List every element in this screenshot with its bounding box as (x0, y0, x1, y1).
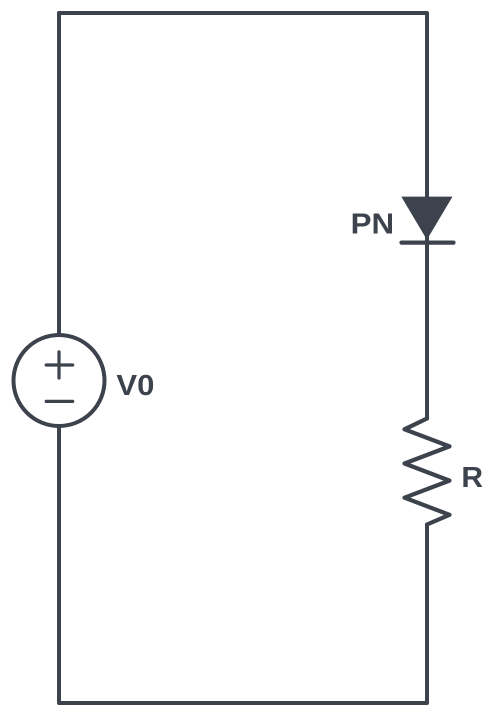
svg-text:PN: PN (351, 208, 395, 240)
svg-text:V0: V0 (116, 370, 154, 402)
voltage source V0 (14, 335, 105, 426)
resistor R (405, 419, 450, 525)
wire (59, 13, 427, 703)
svg-text:R: R (461, 462, 483, 494)
V0 minus sign (46, 400, 72, 403)
diode PN triangle (anode) (401, 197, 452, 240)
diode PN cathode bar (402, 241, 454, 245)
V0 plus sign (46, 352, 72, 378)
